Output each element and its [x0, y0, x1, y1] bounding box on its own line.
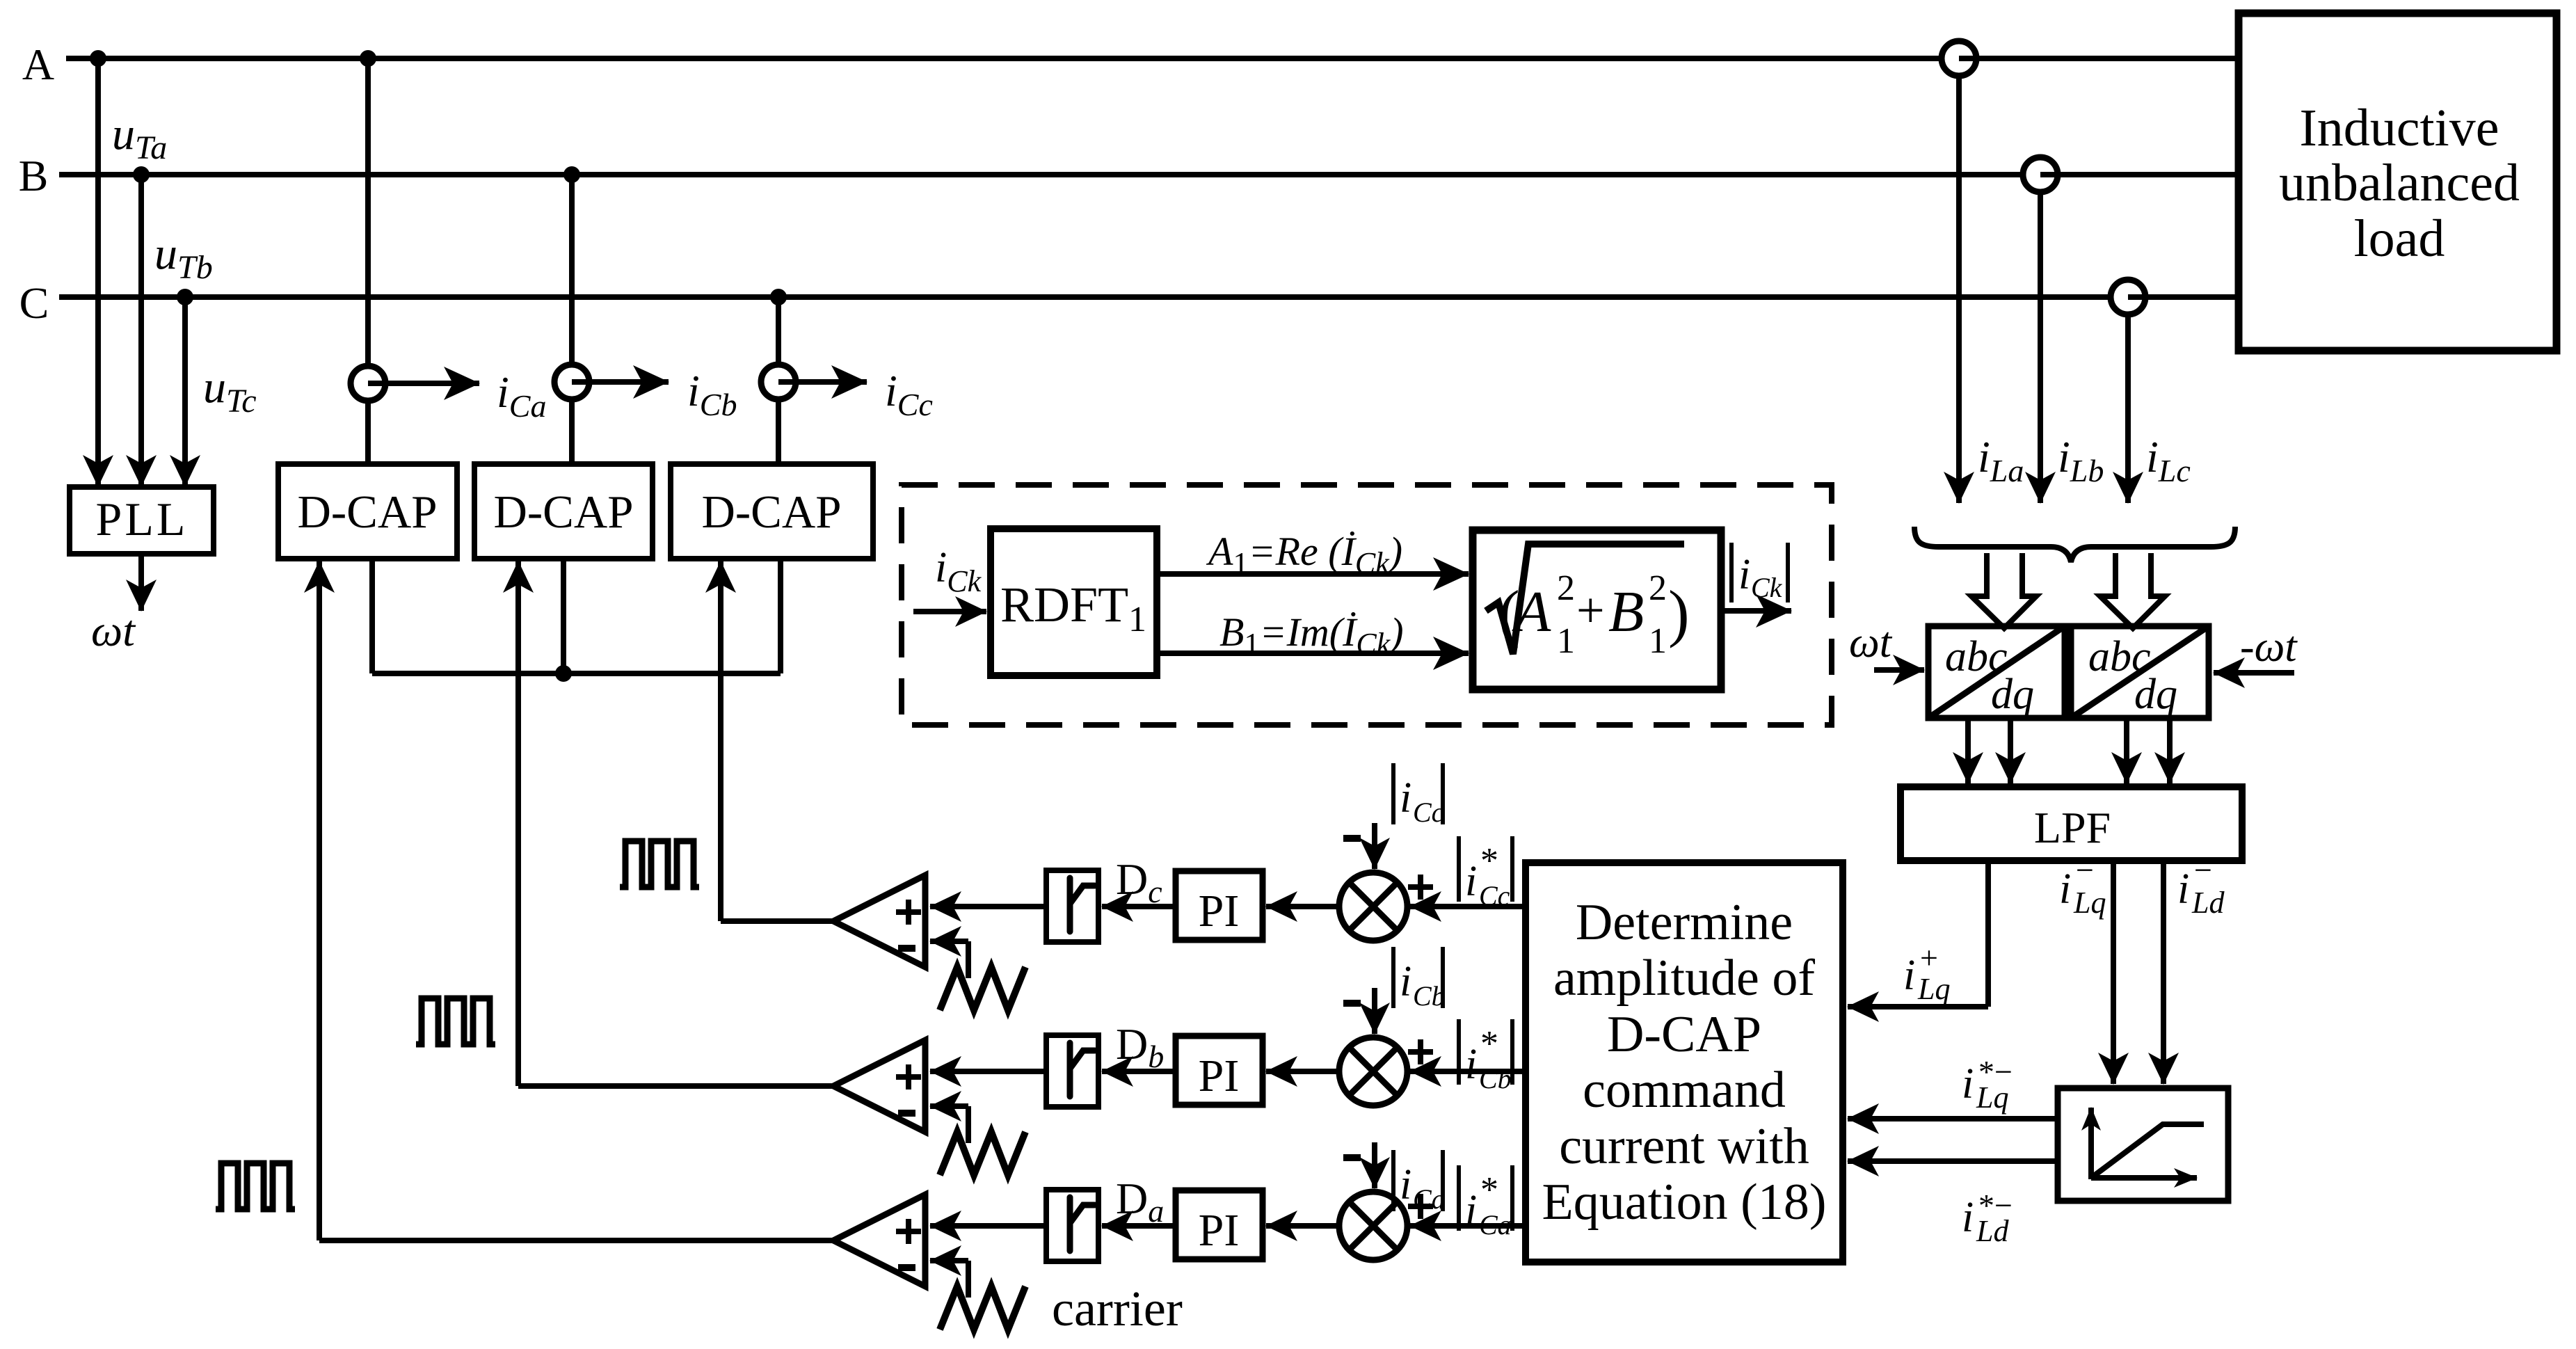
block RDFT1 [991, 529, 1157, 676]
svg-text:unbalanced: unbalanced [2279, 154, 2520, 212]
svg-text:*: * [1480, 841, 1498, 881]
wire LPF left output down [1985, 861, 1991, 1007]
wire iLd*- from limiter to Determine [1848, 1158, 2058, 1164]
current sensor iCc [761, 365, 796, 399]
wire PWM c feedback up into D-CAP c [718, 561, 723, 921]
label |iCb| [1391, 947, 1395, 1008]
svg-text:i: i [1465, 1041, 1477, 1088]
junction on A for D-CAP a [360, 50, 376, 67]
svg-text:B: B [19, 151, 49, 200]
wire abc/dq output into LPF [2167, 718, 2173, 783]
svg-text:C: C [19, 278, 49, 328]
current sensor iCa [351, 366, 385, 401]
junction on A for uTa [90, 50, 106, 67]
svg-text:2: 2 [1649, 568, 1667, 608]
svg-text:ωt: ωt [1849, 619, 1893, 666]
wire stub through sensor iLc [2128, 294, 2154, 300]
label plus comparator [896, 1074, 921, 1080]
wire phase A down to D-CAP a [365, 58, 371, 464]
label |iCa*| [1457, 1165, 1461, 1231]
svg-text:D-CAP: D-CAP [297, 486, 437, 538]
wire neutral bus [372, 671, 781, 676]
wire iCk into RDFT [913, 609, 986, 614]
svg-text:D-CAP: D-CAP [493, 486, 633, 538]
block PI channel c [1176, 871, 1263, 940]
saturation axis horizontal [2091, 1175, 2197, 1181]
block inductive unbalanced load [2239, 13, 2557, 351]
block arrow into abc/dq 1 [1971, 553, 2036, 628]
svg-text:Inductive: Inductive [2299, 99, 2499, 157]
svg-text:i: i [2059, 865, 2071, 913]
svg-text:load: load [2354, 209, 2445, 268]
svg-text:Cc: Cc [1413, 797, 1444, 828]
wire abc/dq output into LPF [2008, 718, 2013, 783]
svg-text:dq: dq [1991, 671, 2034, 718]
wire |iCk| output [1721, 608, 1791, 614]
label |iCa| [1391, 1150, 1395, 1211]
block PI channel a [1176, 1190, 1263, 1259]
wire D-CAP b to neutral [561, 559, 566, 673]
wire phase C down to D-CAP c [776, 297, 781, 464]
current sensor iLb [2023, 157, 2058, 192]
label plus at multiplier [1408, 1049, 1433, 1055]
block LPF [1901, 787, 2242, 861]
carrier sawtooth icon channel a [940, 1286, 1025, 1330]
svg-text:-ωt: -ωt [2240, 623, 2298, 671]
label minus at multiplier [1343, 835, 1361, 842]
wire phase B bus [59, 172, 2239, 177]
wire iLq- down to limiter block [2111, 861, 2116, 1084]
svg-text:Lq: Lq [1917, 972, 1950, 1006]
block D-CAP phase a [278, 464, 457, 559]
wire multiplier to PI channel a [1266, 1223, 1339, 1229]
svg-text:i: i [1738, 551, 1750, 598]
wire command |iCc*| from Determine to multiplier [1410, 904, 1526, 909]
block saturation limiter [2058, 1088, 2228, 1201]
wire command |iCb*| from Determine to multiplier [1410, 1069, 1526, 1074]
label minus at multiplier [1343, 1000, 1361, 1007]
multiplier circle channel b [1339, 1037, 1407, 1105]
svg-text:PI: PI [1199, 1205, 1240, 1256]
svg-text:A: A [22, 40, 54, 89]
svg-text:B: B [1608, 580, 1644, 644]
wire iCa measurement arrow [368, 381, 479, 386]
svg-text:RDFT1: RDFT1 [1000, 577, 1146, 639]
junction on B for D-CAP b [563, 166, 580, 183]
wire multiplier to PI channel c [1266, 904, 1339, 909]
svg-text:carrier: carrier [1052, 1281, 1183, 1336]
wire measured |iCb| into multiplier minus [1372, 988, 1377, 1034]
label |iCk| [1729, 543, 1734, 602]
wire iLc down to brace [2125, 314, 2131, 503]
multiplier circle channel c [1339, 872, 1407, 941]
block limiter channel a [930, 1223, 1048, 1229]
svg-text:Cb: Cb [1413, 980, 1446, 1012]
block abc/dq transform 2 [2071, 626, 2209, 718]
svg-text:−: − [2076, 852, 2094, 888]
wire RDFT output B1 [1157, 650, 1469, 656]
svg-text:command: command [1583, 1062, 1786, 1119]
svg-text:1: 1 [1649, 621, 1667, 661]
svg-text:i: i [1400, 774, 1411, 822]
wire carrier into comparator minus [930, 939, 968, 944]
wire iLd- down to limiter block [2161, 861, 2166, 1084]
comparator triangle channel a [833, 1195, 925, 1286]
wire iCc measurement arrow [778, 379, 867, 385]
label |iCc| [1391, 763, 1395, 824]
svg-text:Lq: Lq [1976, 1080, 2008, 1115]
wire iLb down to brace [2038, 192, 2043, 503]
saturation curve [2091, 1124, 2204, 1178]
wire RDFT output A1 [1157, 571, 1469, 577]
wire phase A bus [66, 56, 2239, 61]
wire stub through sensor iLa [1959, 56, 1985, 61]
svg-text:LPF: LPF [2034, 803, 2111, 852]
wire iLq+ into Determine box [1848, 1004, 1988, 1009]
wire command |iCa*| from Determine to multiplier [1410, 1223, 1526, 1229]
brace grouping load currents [1914, 527, 2235, 562]
wire D-CAP c to neutral [778, 559, 783, 673]
svg-text:ωt: ωt [91, 606, 136, 655]
wire uTb sense from B to PLL [138, 175, 144, 486]
wire PWM a horizontal from comparator a [319, 1238, 833, 1243]
svg-text:i: i [1962, 1194, 1974, 1241]
svg-text:i: i [1400, 958, 1411, 1005]
limiter symbol [1070, 1043, 1095, 1096]
svg-text:Ca: Ca [1479, 1209, 1512, 1240]
wire iLq*- from limiter to Determine [1848, 1116, 2058, 1121]
svg-text:2: 2 [1557, 568, 1575, 608]
svg-text:i: i [1465, 1187, 1477, 1234]
wire iLa down to brace [1956, 76, 1962, 503]
label plus at multiplier [1408, 884, 1433, 890]
comparator triangle channel b [833, 1040, 925, 1132]
wire uTa sense from A to PLL [95, 58, 101, 486]
block limiter channel b [930, 1069, 1048, 1074]
svg-text:PI: PI [1199, 1051, 1240, 1101]
svg-text:Ld: Ld [1976, 1214, 2009, 1248]
label plus at multiplier [1408, 1204, 1433, 1209]
svg-text:PI: PI [1199, 886, 1240, 936]
limiter symbol [1070, 1197, 1095, 1251]
current sensor iLc [2111, 280, 2145, 314]
wire carrier into comparator minus [930, 1258, 968, 1263]
wire wt into abc/dq 1 [1874, 667, 1924, 673]
label plus comparator [896, 909, 921, 915]
pwm pulse icon a [216, 1163, 295, 1209]
wire PI to limiter channel b [1102, 1069, 1176, 1074]
svg-text:A: A [1512, 580, 1551, 644]
block D-CAP phase c [671, 464, 873, 559]
svg-text:+: + [1576, 582, 1605, 638]
junction neutral [555, 665, 572, 682]
label |iCc*| [1457, 836, 1461, 902]
svg-text:i: i [1903, 952, 1915, 999]
wire abc/dq output into LPF [1965, 718, 1971, 783]
wire measured |iCa| into multiplier minus [1372, 1142, 1377, 1188]
block arrow into abc/dq 2 [2100, 553, 2165, 628]
svg-text:−: − [2194, 852, 2212, 888]
comparator triangle channel c [833, 875, 925, 967]
svg-text:*: * [1480, 1024, 1498, 1064]
wire carrier into comparator minus [930, 1103, 968, 1109]
pwm pulse icon c [620, 841, 699, 887]
wire uTc sense from C to PLL [182, 297, 188, 486]
label minus comparator [898, 1264, 915, 1271]
svg-text:Equation (18): Equation (18) [1542, 1174, 1827, 1231]
svg-text:Ld: Ld [2191, 886, 2225, 920]
svg-text:PLL: PLL [96, 493, 189, 545]
saturation axis vertical [2088, 1108, 2094, 1179]
radical sign [1486, 544, 1684, 654]
junction on C for uTc [177, 289, 193, 305]
svg-text:D-CAP: D-CAP [701, 486, 841, 538]
block sqrt(A1^2+B1^2) [1473, 530, 1721, 689]
svg-text:): ) [1668, 577, 1690, 648]
wire PLL output wt [138, 554, 144, 611]
current sensor iCb [554, 365, 589, 399]
label plus comparator [896, 1229, 921, 1234]
svg-text:Cc: Cc [1479, 880, 1510, 911]
label minus comparator [898, 945, 915, 952]
wire PWM b horizontal from comparator b [518, 1083, 833, 1089]
svg-text:amplitude of: amplitude of [1553, 950, 1815, 1007]
svg-text:Ck: Ck [1751, 572, 1783, 603]
dashed inset box [902, 485, 1832, 725]
label minus comparator [898, 1110, 915, 1117]
pwm pulse icon b [416, 998, 495, 1044]
carrier sawtooth icon channel b [940, 1132, 1025, 1175]
junction on B for uTb [133, 166, 150, 183]
wire -wt into abc/dq 2 [2214, 670, 2294, 676]
carrier sawtooth icon channel c [940, 967, 1025, 1010]
multiplier circle channel a [1339, 1192, 1407, 1260]
svg-text:+: + [1920, 940, 1938, 975]
svg-text:i: i [2177, 865, 2189, 913]
block D-CAP phase b [474, 464, 653, 559]
wire iCb measurement arrow [572, 379, 669, 385]
wire multiplier to PI channel b [1266, 1069, 1339, 1074]
wire phase B down to D-CAP b [569, 175, 575, 464]
wire PI to limiter channel c [1102, 904, 1176, 909]
label minus at multiplier [1343, 1154, 1361, 1161]
svg-text:i: i [1962, 1060, 1974, 1108]
svg-text:current with: current with [1559, 1118, 1809, 1175]
block PLL [70, 487, 214, 554]
current sensor iLa [1942, 41, 1976, 76]
wire PWM b feedback up into D-CAP b [515, 561, 521, 1086]
wire PWM c horizontal from comparator c [721, 918, 833, 924]
svg-text:i: i [1465, 858, 1477, 905]
wire phase C bus [59, 294, 2239, 300]
svg-text:*: * [1480, 1170, 1498, 1210]
svg-text:1: 1 [1557, 621, 1575, 661]
wire abc/dq output into LPF [2124, 718, 2129, 783]
label |iCb*| [1457, 1019, 1461, 1085]
svg-text:Lq: Lq [2073, 886, 2106, 920]
svg-text:D-CAP: D-CAP [1607, 1006, 1761, 1063]
wire stub through sensor iLb [2040, 172, 2067, 177]
svg-text:Cb: Cb [1479, 1063, 1512, 1094]
svg-text:dq: dq [2134, 671, 2177, 718]
block abc/dq transform 1 [1928, 626, 2065, 718]
block limiter channel c [930, 904, 1048, 909]
wire D-CAP a to neutral [369, 559, 375, 673]
svg-text:i: i [1400, 1161, 1411, 1208]
limiter symbol [1070, 878, 1095, 932]
block determine amplitude [1526, 863, 1843, 1262]
block PI channel b [1176, 1036, 1263, 1105]
junction on C for D-CAP c [770, 289, 787, 305]
wire PWM a feedback up into D-CAP a [317, 561, 322, 1240]
wire PI to limiter channel a [1102, 1223, 1176, 1229]
svg-text:Determine: Determine [1576, 894, 1793, 951]
wire measured |iCc| into multiplier minus [1372, 823, 1377, 869]
